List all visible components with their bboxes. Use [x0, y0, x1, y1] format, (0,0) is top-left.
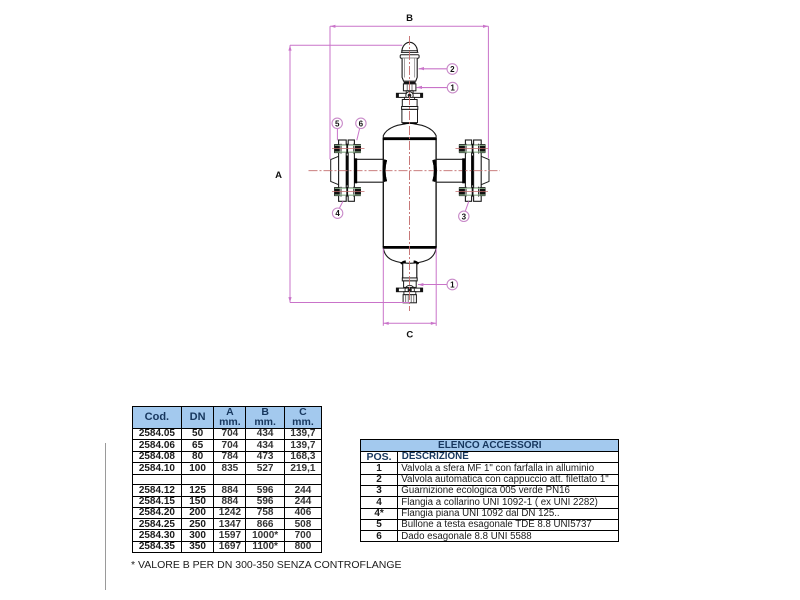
left gasket — [346, 156, 348, 186]
leader for balloon 3 — [465, 201, 469, 211]
leader for balloon 1 top — [417, 87, 448, 89]
drain valve lower body — [404, 292, 416, 295]
dimension B extension left — [329, 26, 331, 159]
vessel top weld seam — [383, 137, 437, 140]
ball valve body circle — [406, 92, 413, 99]
svg-text:C: C — [406, 330, 413, 341]
weld bars overdraw (above centerlines) — [354, 158, 357, 183]
dimension A extension top — [290, 44, 402, 46]
drain T-handle end cap right — [420, 288, 423, 292]
svg-text:5: 5 — [335, 119, 340, 128]
right top bolt nut — [459, 144, 465, 153]
left bottom bolt nut — [355, 187, 361, 196]
balloon 1 bottom — [447, 279, 458, 290]
vessel wall weld arcs overdraw — [384, 160, 386, 182]
vessel shell right wall — [435, 138, 437, 248]
leader for balloon 5 — [336, 129, 338, 141]
balloon 1 top — [447, 82, 458, 93]
air vent black ring — [404, 82, 416, 84]
air vent hex nut section — [403, 84, 416, 91]
footnote — [131, 559, 402, 571]
dimension B arrow left — [330, 25, 335, 28]
ball valve T-handle bar — [396, 93, 422, 97]
T-handle end cap left — [396, 93, 399, 97]
svg-text:2: 2 — [450, 65, 455, 74]
vessel bottom stub weld arc left — [402, 262, 406, 265]
dimensions table — [132, 406, 322, 554]
svg-text:A: A — [275, 170, 282, 181]
right top bolt washer lines — [465, 144, 467, 154]
leader for balloon 4 — [339, 201, 343, 208]
leader for balloon 6 — [357, 128, 360, 140]
right nozzle pipe top line — [436, 158, 463, 160]
svg-text:B: B — [406, 13, 413, 24]
dimension C extension left — [382, 249, 384, 326]
balloon 2 — [447, 64, 458, 75]
svg-text:1: 1 — [450, 281, 455, 290]
drain ball — [408, 288, 412, 292]
right flange plate — [465, 140, 471, 201]
bolt axis left bottom — [332, 191, 365, 193]
svg-text:4: 4 — [335, 209, 340, 218]
left flange hub weld bar — [354, 158, 357, 183]
vessel top dome left — [383, 123, 403, 139]
bolt axis right top — [456, 148, 489, 150]
bolt axis right bottom — [456, 191, 489, 193]
left nozzle pipe top line — [356, 158, 383, 160]
vessel top dome right — [417, 123, 437, 139]
svg-text:1: 1 — [450, 84, 455, 93]
dimension B line — [330, 25, 488, 27]
left nozzle pipe bottom line — [356, 181, 383, 183]
right top bolt shaft — [459, 145, 485, 152]
dimension A extension bottom — [290, 302, 410, 304]
drain valve upper body — [404, 281, 417, 288]
air vent collar ring — [400, 55, 419, 58]
drain valve stub pipe right line — [416, 264, 418, 278]
drain outlet thread lines — [405, 295, 407, 303]
right bottom bolt nut — [459, 187, 465, 196]
drain T-handle end cap left — [396, 288, 399, 292]
centerline horizontal (pipe axis) — [309, 170, 501, 172]
accessories table — [360, 439, 619, 542]
right flange hub weld bar — [462, 158, 465, 183]
lower neck pipe — [402, 109, 418, 122]
air vent body side lines — [404, 58, 406, 77]
vessel wall weld arc at left nozzle — [384, 160, 386, 182]
drain outlet threaded section — [403, 295, 416, 303]
left counterflange plate — [339, 140, 347, 201]
right top bolt head — [480, 144, 486, 153]
right top bolt green lines — [459, 144, 485, 146]
air vent body cylinder — [402, 58, 417, 81]
dimension C line — [383, 322, 436, 324]
right counterflange plate — [474, 140, 482, 201]
right gasket — [472, 156, 474, 186]
ball valve upper stem — [406, 91, 413, 94]
drain valve T-handle bar — [396, 288, 422, 292]
drain ball valve circle — [405, 285, 414, 294]
dimension A arrow bottom — [288, 297, 291, 302]
right bottom bolt shaft — [459, 188, 485, 195]
left flange plate — [348, 140, 354, 201]
right bottom bolt green lines — [459, 187, 485, 189]
svg-text:3: 3 — [462, 212, 467, 221]
dimension C arrow right — [431, 322, 436, 325]
ball valve lower stem — [404, 97, 414, 99]
dimension B extension right — [487, 26, 489, 158]
left counterflange hub cone — [331, 156, 339, 184]
left top bolt washer lines — [340, 144, 342, 154]
right counterflange hub cone — [481, 156, 489, 184]
right bottom bolt head — [480, 187, 486, 196]
air vent valve cap dome — [402, 42, 418, 52]
left page margin line — [105, 443, 106, 590]
left bottom bolt green lines — [335, 187, 361, 189]
dimension B arrow right — [483, 25, 488, 28]
left top bolt green lines — [335, 144, 361, 146]
svg-text:6: 6 — [359, 119, 364, 128]
drain valve coupling ring — [402, 278, 417, 281]
centerline vertical (vessel axis) — [409, 36, 411, 311]
leader for balloon 2 — [419, 68, 448, 70]
leader for balloon 1 bottom — [418, 284, 447, 286]
dimension A arrow top — [288, 45, 291, 50]
vessel bottom weld seam — [383, 246, 437, 249]
left bottom bolt head — [334, 187, 340, 196]
left top bolt nut — [355, 144, 361, 153]
balloon 3 — [459, 211, 469, 221]
right nozzle pipe bottom line — [436, 181, 463, 183]
right bottom bolt washer lines — [465, 187, 467, 197]
left bottom bolt washer lines — [340, 187, 342, 197]
balloon 5 — [332, 118, 342, 128]
drain valve stub pipe left line — [402, 264, 404, 278]
ball valve ball — [408, 94, 412, 98]
vessel shell left wall — [382, 138, 384, 248]
left top bolt shaft — [335, 145, 361, 152]
dimension A line — [289, 45, 291, 302]
dimension C arrow left — [383, 322, 388, 325]
vessel bottom dome — [383, 248, 436, 263]
T-handle end cap right — [420, 93, 423, 97]
left bottom bolt shaft — [335, 188, 361, 195]
left top bolt head — [334, 144, 340, 153]
vessel neck weld arc — [403, 122, 416, 125]
balloon 4 — [332, 208, 342, 218]
vessel bottom stub weld arc right — [414, 262, 418, 265]
bolt axis left top — [332, 148, 365, 150]
vessel wall weld arc at right nozzle — [434, 160, 436, 182]
dimension C extension right — [435, 249, 437, 326]
gasket segments across bolt bands — [346, 144, 348, 154]
upper neck pipe — [402, 100, 417, 107]
balloon 6 — [356, 118, 366, 128]
neck collar — [402, 107, 418, 110]
air vent cap base rings — [401, 51, 419, 53]
